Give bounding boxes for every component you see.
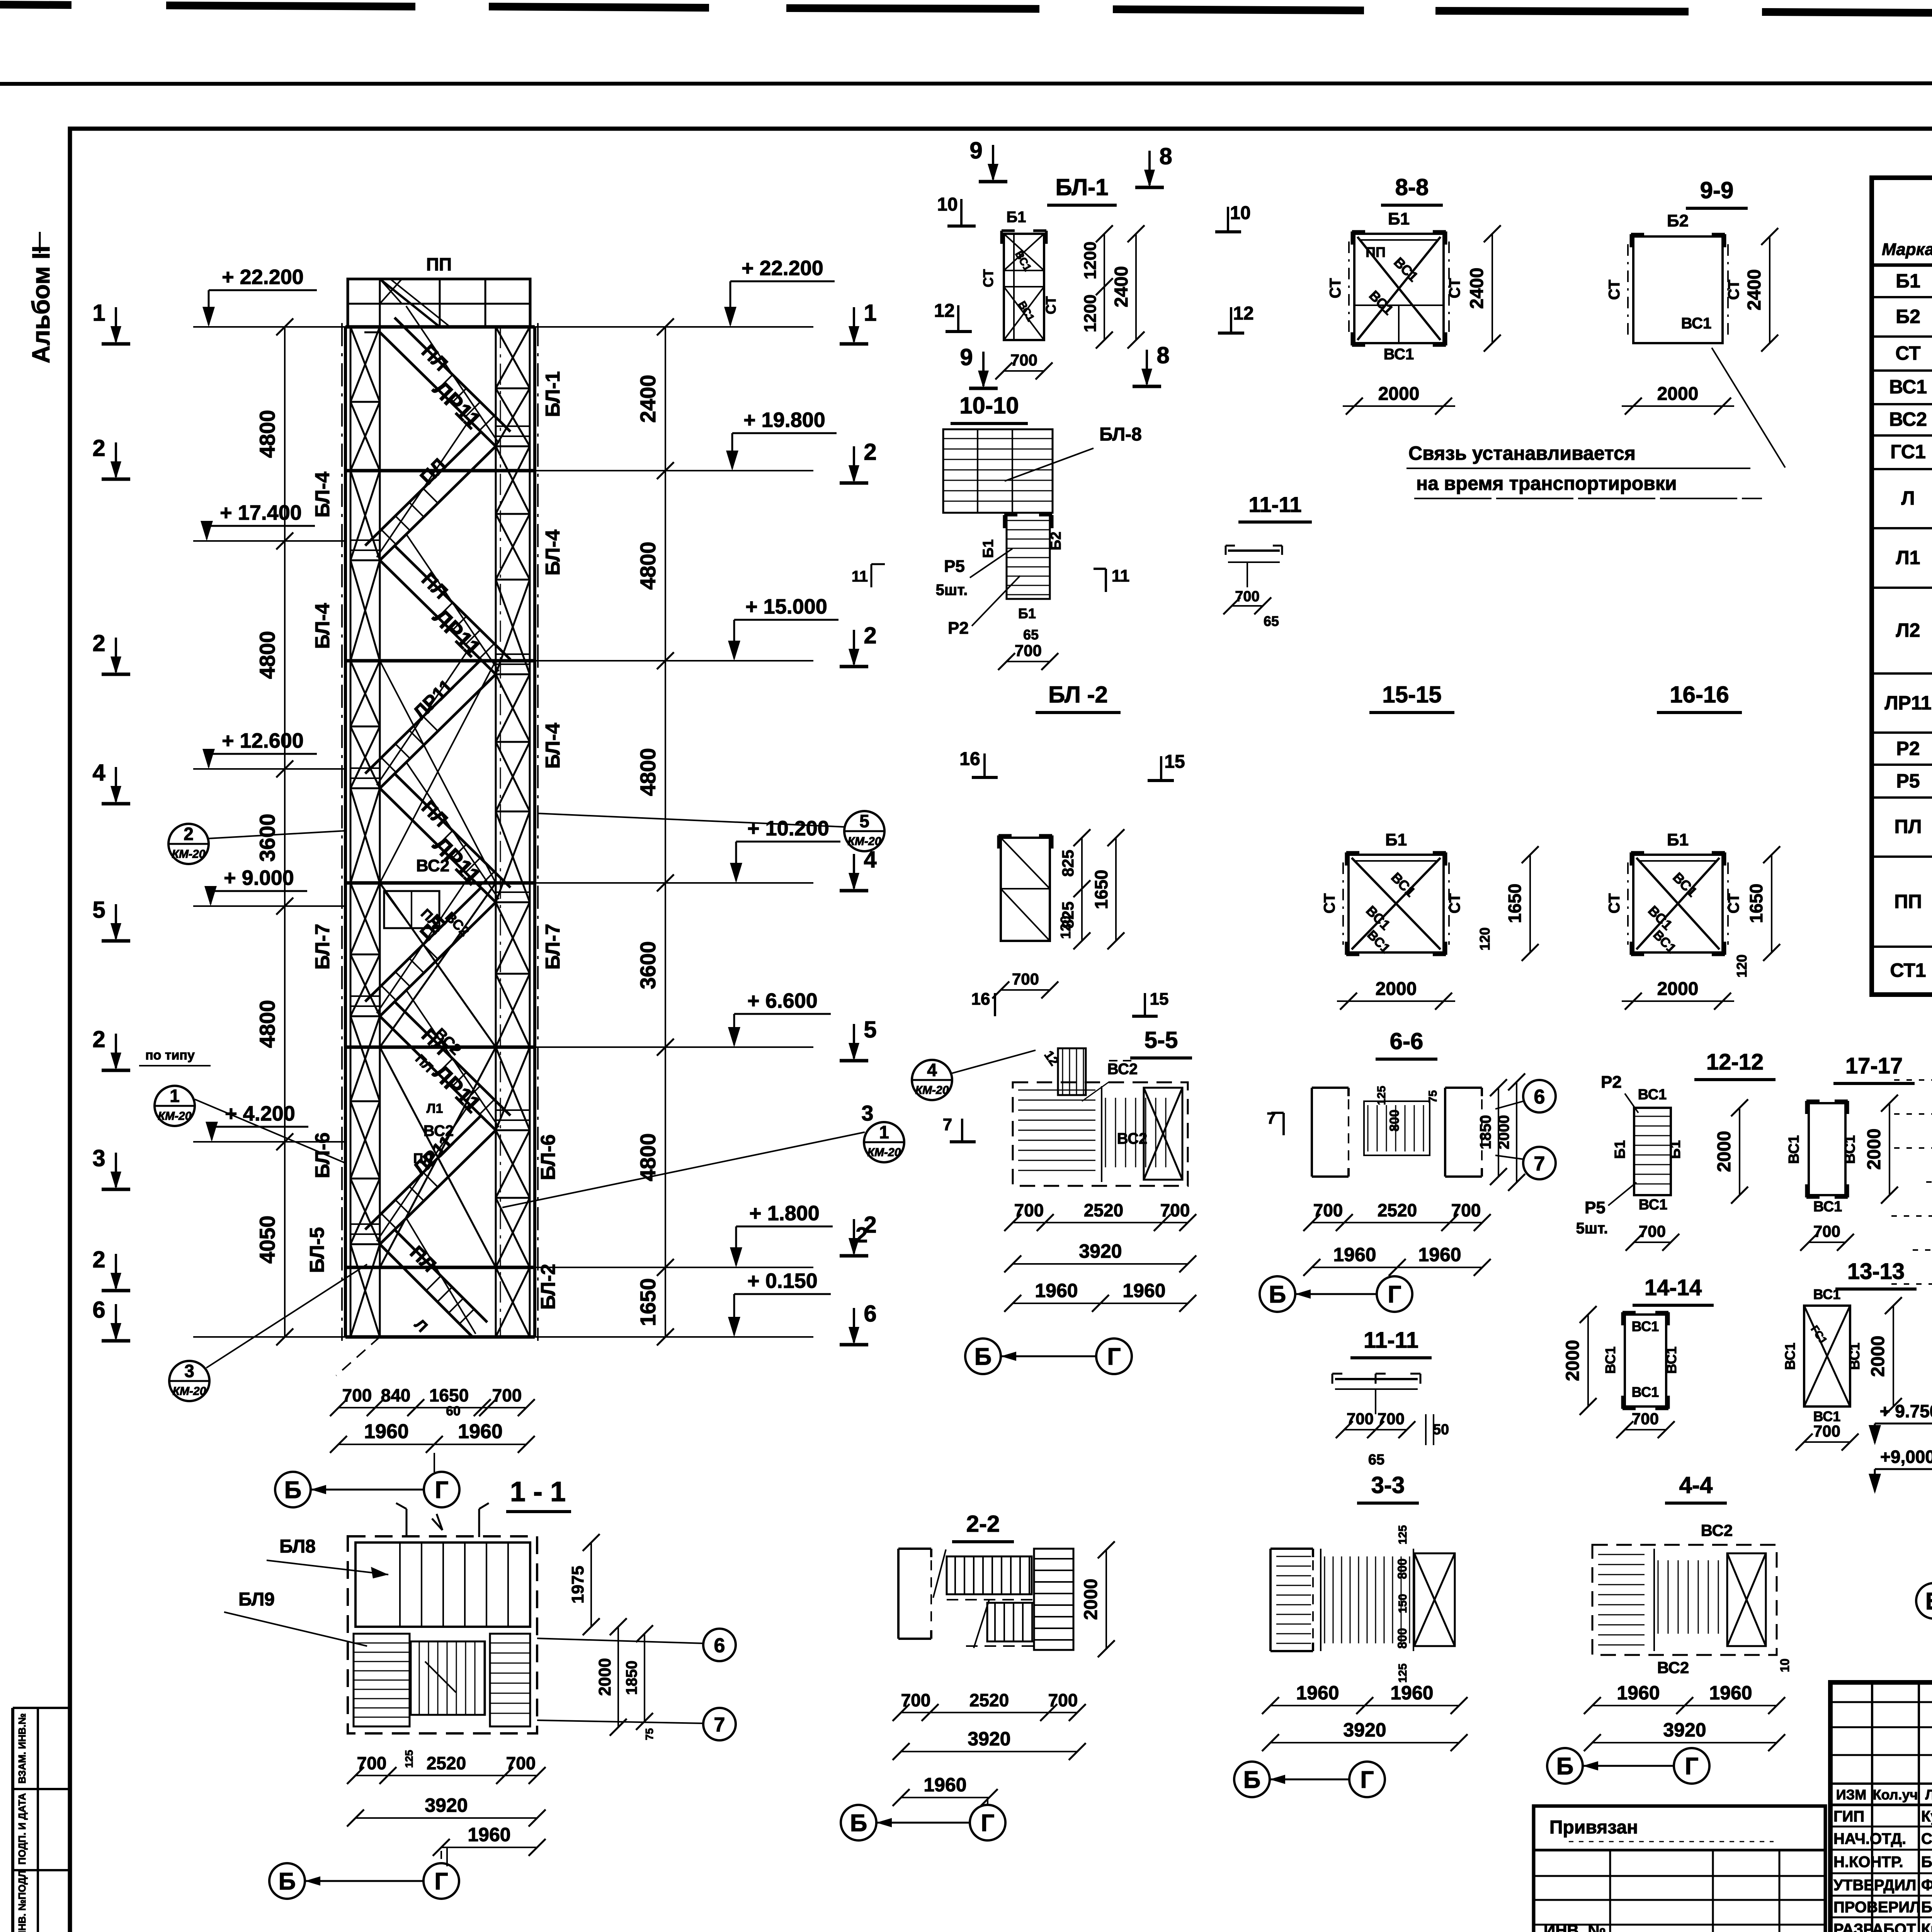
svg-text:15-15: 15-15 [1382, 682, 1441, 707]
svg-text:+ 9.750: + 9.750 [1880, 1401, 1932, 1421]
svg-text:Б2: Б2 [1667, 211, 1689, 230]
svg-text:4800: 4800 [255, 410, 279, 458]
svg-text:2-2: 2-2 [966, 1511, 1000, 1537]
svg-text:6-6: 6-6 [1390, 1028, 1423, 1054]
svg-text:СТ: СТ [1043, 296, 1059, 314]
svg-text:5: 5 [864, 1017, 876, 1043]
svg-text:2520: 2520 [1084, 1200, 1123, 1220]
svg-text:65: 65 [1368, 1452, 1384, 1468]
svg-text:Связь устанавливается: Связь устанавливается [1408, 442, 1636, 464]
svg-text:БЛ-4: БЛ-4 [542, 530, 564, 576]
svg-text:150: 150 [1396, 1594, 1409, 1613]
svg-text:700: 700 [1014, 1200, 1044, 1220]
svg-text:ВС1: ВС1 [1782, 1343, 1798, 1370]
svg-text:11: 11 [1112, 566, 1130, 585]
svg-text:12-12: 12-12 [1706, 1049, 1764, 1075]
svg-text:1 - 1: 1 - 1 [510, 1476, 566, 1507]
svg-text:16-16: 16-16 [1670, 682, 1729, 707]
svg-text:СТ1: СТ1 [1890, 959, 1926, 981]
svg-text:СТ: СТ [1895, 342, 1920, 364]
svg-text:2000: 2000 [1714, 1131, 1735, 1172]
svg-text:ГИП: ГИП [1833, 1808, 1864, 1825]
svg-text:11-11: 11-11 [1248, 492, 1301, 517]
svg-text:125: 125 [403, 1750, 415, 1768]
svg-text:2400: 2400 [1111, 266, 1132, 308]
svg-text:БЛ-6: БЛ-6 [537, 1134, 560, 1180]
svg-text:4800: 4800 [636, 542, 660, 590]
svg-text:Р2: Р2 [1601, 1073, 1622, 1092]
svg-text:2: 2 [92, 1026, 105, 1052]
svg-text:2520: 2520 [969, 1690, 1009, 1710]
svg-text:КМ-20: КМ-20 [867, 1146, 901, 1159]
svg-text:ЛР11: ЛР11 [1884, 692, 1931, 714]
svg-text:СТ: СТ [1606, 280, 1623, 300]
svg-text:ВС1: ВС1 [1889, 376, 1927, 398]
svg-text:Р5: Р5 [1896, 770, 1920, 792]
svg-text:8: 8 [1156, 342, 1169, 368]
svg-text:БЛ-6: БЛ-6 [311, 1133, 334, 1179]
svg-text:700: 700 [1160, 1200, 1190, 1220]
svg-text:Р5: Р5 [944, 557, 965, 576]
svg-text:Г: Г [434, 1868, 448, 1895]
svg-text:2: 2 [92, 630, 105, 656]
svg-text:РАЗРАБОТ: РАЗРАБОТ [1833, 1921, 1916, 1932]
svg-text:5-5: 5-5 [1145, 1027, 1178, 1053]
svg-text:УТВЕРДИЛ: УТВЕРДИЛ [1833, 1877, 1916, 1894]
svg-text:ВС2: ВС2 [416, 856, 449, 875]
svg-text:1650: 1650 [429, 1385, 469, 1405]
svg-text:9: 9 [960, 344, 973, 370]
svg-text:КМ-20: КМ-20 [158, 1110, 192, 1122]
svg-text:БЛ-5: БЛ-5 [306, 1227, 328, 1273]
svg-text:СТ: СТ [1606, 893, 1623, 913]
svg-text:700: 700 [1010, 351, 1037, 369]
svg-text:700: 700 [901, 1690, 931, 1710]
svg-text:ВЗАМ. ИНВ.№: ВЗАМ. ИНВ.№ [16, 1713, 28, 1784]
svg-text:КМ-20: КМ-20 [915, 1084, 949, 1097]
svg-text:СТ: СТ [1725, 280, 1742, 300]
svg-text:700: 700 [1639, 1222, 1666, 1240]
svg-text:ВС1: ВС1 [1384, 346, 1414, 363]
svg-text:700: 700 [1048, 1690, 1078, 1710]
svg-text:2: 2 [184, 824, 194, 844]
svg-text:Б: Б [1269, 1281, 1286, 1308]
svg-text:БЛ-1: БЛ-1 [542, 371, 564, 417]
svg-text:7: 7 [1534, 1153, 1545, 1175]
svg-text:3920: 3920 [1343, 1719, 1386, 1741]
svg-text:Г: Г [1685, 1753, 1698, 1780]
svg-text:3: 3 [184, 1361, 194, 1381]
svg-text:СТ: СТ [1446, 278, 1463, 298]
svg-text:Б1: Б1 [1667, 1140, 1684, 1159]
svg-text:Л: Л [1901, 487, 1915, 509]
svg-text:75: 75 [1427, 1090, 1439, 1103]
svg-text:2000: 2000 [1495, 1115, 1512, 1150]
svg-text:800: 800 [1395, 1558, 1409, 1579]
svg-text:Л1: Л1 [1896, 547, 1920, 568]
svg-text:Б: Б [850, 1810, 867, 1837]
svg-text:ВС2: ВС2 [423, 1122, 454, 1139]
svg-text:1960: 1960 [1709, 1682, 1752, 1704]
svg-text:Г: Г [1107, 1344, 1121, 1370]
svg-text:11: 11 [852, 568, 868, 585]
svg-text:БЛ-2: БЛ-2 [537, 1264, 560, 1310]
svg-text:Б1: Б1 [1667, 830, 1689, 849]
svg-text:ПЛ: ПЛ [1894, 816, 1922, 837]
svg-text:1: 1 [170, 1086, 180, 1106]
svg-text:+ 4.200: + 4.200 [225, 1102, 295, 1125]
svg-text:800: 800 [1387, 1110, 1402, 1132]
svg-text:2000: 2000 [1376, 979, 1417, 999]
svg-text:ВС1: ВС1 [1786, 1135, 1802, 1164]
svg-text:Альбом II: Альбом II [27, 246, 55, 364]
svg-text:5шт.: 5шт. [936, 582, 968, 599]
svg-text:по типу: по типу [145, 1048, 195, 1063]
svg-text:125: 125 [1375, 1086, 1388, 1105]
svg-text:15: 15 [1164, 752, 1185, 772]
svg-text:3920: 3920 [1079, 1240, 1122, 1262]
svg-text:Кол.уч: Кол.уч [1873, 1787, 1918, 1803]
svg-text:+ 17.400: + 17.400 [220, 501, 302, 524]
svg-text:2000: 2000 [1657, 979, 1699, 999]
svg-text:5шт.: 5шт. [1576, 1220, 1608, 1237]
svg-text:Бабурин: Бабурин [1921, 1899, 1932, 1916]
svg-text:Б: Б [284, 1477, 302, 1503]
svg-text:700: 700 [342, 1385, 372, 1405]
svg-text:ВС2: ВС2 [1701, 1521, 1733, 1539]
svg-text:10: 10 [937, 194, 957, 215]
svg-text:700: 700 [1632, 1410, 1659, 1428]
svg-text:1960: 1960 [1418, 1244, 1461, 1265]
svg-text:15: 15 [1150, 990, 1169, 1009]
svg-text:1: 1 [879, 1122, 889, 1142]
svg-text:3600: 3600 [255, 814, 279, 862]
svg-text:Б2: Б2 [1896, 306, 1920, 327]
svg-text:на время транспортировки: на время транспортировки [1416, 473, 1677, 494]
svg-text:2520: 2520 [427, 1753, 466, 1773]
svg-text:Б1: Б1 [1896, 270, 1920, 292]
svg-text:700: 700 [1313, 1200, 1343, 1220]
svg-text:Г: Г [981, 1810, 994, 1837]
svg-text:3: 3 [92, 1145, 105, 1171]
svg-text:1850: 1850 [1477, 1115, 1494, 1150]
svg-text:65: 65 [1264, 613, 1279, 629]
svg-text:ПОДП. И ДАТА: ПОДП. И ДАТА [16, 1793, 28, 1864]
svg-text:Князева: Князева [1921, 1921, 1932, 1932]
svg-text:1960: 1960 [923, 1774, 966, 1796]
svg-text:БЛ-4: БЛ-4 [542, 723, 564, 769]
svg-text:Б1: Б1 [1018, 605, 1036, 621]
svg-text:4800: 4800 [636, 748, 660, 796]
svg-text:4: 4 [92, 760, 105, 786]
svg-text:+ 1.800: + 1.800 [749, 1202, 820, 1225]
svg-text:700: 700 [1235, 588, 1259, 605]
svg-text:1960: 1960 [468, 1824, 510, 1845]
svg-text:ВС1: ВС1 [1632, 1384, 1659, 1400]
svg-text:+ 22.200: + 22.200 [742, 257, 823, 280]
svg-text:4-4: 4-4 [1679, 1472, 1713, 1498]
svg-text:7: 7 [714, 1714, 725, 1736]
svg-text:13-13: 13-13 [1847, 1259, 1905, 1284]
svg-text:120: 120 [1477, 927, 1493, 951]
svg-text:1650: 1650 [1746, 884, 1766, 923]
svg-text:ВС1: ВС1 [1813, 1286, 1841, 1302]
svg-text:Кузнецов: Кузнецов [1921, 1808, 1932, 1825]
svg-text:Б1: Б1 [1612, 1140, 1628, 1159]
svg-text:3: 3 [861, 1101, 873, 1125]
svg-text:125: 125 [1396, 1663, 1409, 1683]
svg-text:2000: 2000 [1868, 1336, 1888, 1377]
svg-text:1: 1 [864, 300, 876, 326]
svg-text:Б: Б [1925, 1588, 1932, 1615]
svg-text:1850: 1850 [623, 1661, 640, 1695]
svg-text:Севостьянов: Севостьянов [1921, 1830, 1932, 1847]
svg-text:12: 12 [934, 301, 954, 321]
svg-text:БЛ-1: БЛ-1 [1055, 174, 1108, 200]
svg-text:2400: 2400 [1467, 268, 1487, 309]
svg-text:СТ: СТ [1321, 893, 1338, 913]
svg-text:ВС1: ВС1 [1632, 1318, 1659, 1334]
svg-text:700: 700 [1012, 970, 1039, 988]
svg-text:6: 6 [1534, 1086, 1545, 1108]
svg-text:Б: Б [975, 1344, 992, 1370]
svg-text:Б: Б [1243, 1767, 1261, 1793]
svg-text:2: 2 [92, 435, 105, 461]
svg-text:6: 6 [864, 1301, 876, 1327]
svg-text:ПЛ: ПЛ [413, 1150, 433, 1166]
svg-text:Н.КОНТР.: Н.КОНТР. [1833, 1854, 1903, 1871]
svg-text:7: 7 [943, 1115, 952, 1134]
svg-text:ИЗМ: ИЗМ [1836, 1787, 1866, 1803]
svg-text:+ 19.800: + 19.800 [743, 408, 825, 432]
svg-text:50: 50 [1433, 1422, 1449, 1438]
svg-text:ПРОВЕРИЛ: ПРОВЕРИЛ [1833, 1899, 1920, 1916]
svg-text:825: 825 [1059, 850, 1077, 877]
svg-text:75: 75 [643, 1728, 655, 1740]
svg-text:+ 15.000: + 15.000 [745, 595, 827, 618]
svg-text:Б1: Б1 [1385, 830, 1407, 849]
svg-text:Б: Б [1556, 1753, 1574, 1780]
svg-text:Б1: Б1 [980, 539, 997, 558]
svg-text:СТ: СТ [1725, 893, 1742, 913]
svg-text:+9,000: +9,000 [1880, 1447, 1932, 1467]
svg-text:БЛ-4: БЛ-4 [311, 472, 334, 518]
svg-text:700: 700 [357, 1753, 387, 1773]
svg-text:1960: 1960 [1390, 1682, 1433, 1704]
svg-text:+ 6.600: + 6.600 [747, 989, 818, 1012]
svg-text:Г: Г [435, 1477, 448, 1503]
svg-text:2000: 2000 [1864, 1129, 1884, 1170]
svg-text:Г: Г [1388, 1281, 1401, 1308]
svg-text:1650: 1650 [636, 1278, 660, 1327]
svg-text:14-14: 14-14 [1645, 1275, 1702, 1300]
svg-text:+ 0.150: + 0.150 [747, 1269, 818, 1293]
svg-text:700: 700 [1813, 1222, 1840, 1240]
svg-text:60: 60 [446, 1404, 461, 1418]
svg-text:700: 700 [492, 1385, 522, 1405]
svg-text:Б1: Б1 [1388, 209, 1410, 228]
svg-text:8: 8 [1159, 143, 1172, 169]
svg-text:10: 10 [1778, 1658, 1792, 1672]
svg-text:9-9: 9-9 [1700, 177, 1734, 203]
svg-text:6: 6 [714, 1634, 725, 1657]
svg-text:700: 700 [506, 1753, 536, 1773]
svg-text:НАЧ.ОТД.: НАЧ.ОТД. [1833, 1830, 1906, 1847]
svg-text:Б2: Б2 [1048, 532, 1064, 550]
svg-text:ВС1: ВС1 [1847, 1343, 1862, 1370]
svg-text:1960: 1960 [364, 1420, 409, 1443]
svg-text:840: 840 [381, 1385, 411, 1405]
svg-text:12: 12 [1233, 303, 1253, 324]
svg-text:ВС2: ВС2 [1889, 408, 1927, 430]
svg-text:2000: 2000 [1563, 1340, 1583, 1381]
svg-text:3920: 3920 [968, 1728, 1010, 1750]
svg-text:ВС1: ВС1 [1681, 315, 1712, 332]
svg-text:КМ-20: КМ-20 [172, 848, 206, 861]
svg-text:1960: 1960 [458, 1420, 503, 1443]
svg-text:Р2: Р2 [948, 619, 969, 638]
svg-text:2000: 2000 [1657, 384, 1699, 404]
svg-text:3920: 3920 [1663, 1719, 1706, 1741]
svg-text:3600: 3600 [636, 941, 660, 990]
svg-text:6: 6 [92, 1297, 105, 1323]
svg-text:+ 10.200: + 10.200 [747, 817, 829, 840]
svg-text:2400: 2400 [636, 375, 660, 423]
svg-text:Л2: Л2 [1896, 619, 1920, 641]
svg-text:Р5: Р5 [1585, 1198, 1605, 1217]
svg-text:2000: 2000 [1081, 1579, 1101, 1620]
svg-text:ПП: ПП [426, 254, 452, 274]
svg-text:БЛ-7: БЛ-7 [542, 924, 564, 970]
svg-text:2: 2 [864, 622, 876, 648]
svg-text:Р2: Р2 [1896, 738, 1920, 759]
svg-text:СТ: СТ [980, 269, 996, 287]
svg-text:16: 16 [971, 990, 990, 1009]
svg-text:ВС1: ВС1 [1842, 1135, 1858, 1164]
svg-text:Б1: Б1 [1007, 209, 1026, 226]
svg-text:ПП: ПП [1894, 891, 1922, 912]
svg-text:Л1: Л1 [427, 1101, 443, 1116]
svg-text:120: 120 [1058, 916, 1073, 939]
svg-text:2000: 2000 [1378, 384, 1420, 404]
svg-text:1960: 1960 [1122, 1280, 1165, 1301]
svg-text:1200: 1200 [1081, 294, 1100, 332]
svg-text:120: 120 [1734, 954, 1750, 978]
svg-text:5: 5 [92, 897, 105, 923]
svg-text:1: 1 [92, 300, 105, 326]
svg-text:1975: 1975 [568, 1566, 587, 1604]
svg-text:2000: 2000 [595, 1658, 614, 1696]
svg-text:БЛ-8: БЛ-8 [1099, 424, 1142, 445]
svg-text:1960: 1960 [1617, 1682, 1660, 1704]
svg-text:3-3: 3-3 [1371, 1472, 1405, 1498]
svg-text:ИНВ. №: ИНВ. № [1544, 1921, 1606, 1932]
svg-text:БЛ9: БЛ9 [238, 1589, 275, 1610]
svg-text:БЛ8: БЛ8 [279, 1536, 316, 1557]
svg-text:1960: 1960 [1296, 1682, 1339, 1704]
svg-text:2520: 2520 [1378, 1200, 1417, 1220]
svg-text:КМ-20: КМ-20 [173, 1385, 206, 1398]
svg-text:4050: 4050 [255, 1216, 279, 1264]
svg-text:+ 9.000: + 9.000 [224, 866, 294, 889]
svg-text:4800: 4800 [255, 1000, 279, 1048]
svg-text:1200: 1200 [1081, 241, 1100, 279]
svg-text:ВС2: ВС2 [1117, 1130, 1148, 1147]
svg-text:4800: 4800 [636, 1133, 660, 1182]
svg-text:2: 2 [92, 1247, 105, 1272]
svg-text:700: 700 [1813, 1422, 1840, 1440]
svg-text:+ 22.200: + 22.200 [222, 265, 304, 289]
svg-text:БЛ-4: БЛ-4 [311, 603, 334, 649]
svg-text:БЛ-7: БЛ-7 [311, 924, 334, 970]
svg-text:2: 2 [864, 439, 876, 465]
svg-text:Б: Б [279, 1868, 296, 1895]
svg-text:8-8: 8-8 [1395, 174, 1429, 200]
svg-text:КМ-20: КМ-20 [848, 835, 881, 848]
svg-text:ВС1: ВС1 [1639, 1197, 1668, 1213]
svg-text:1650: 1650 [1091, 870, 1111, 909]
svg-text:1960: 1960 [1333, 1244, 1376, 1265]
svg-text:10-10: 10-10 [959, 393, 1019, 418]
svg-text:ПП: ПП [1366, 244, 1386, 260]
svg-text:65: 65 [1023, 627, 1039, 643]
svg-text:БЛ -2: БЛ -2 [1048, 682, 1108, 707]
svg-text:ГС1: ГС1 [1890, 441, 1926, 463]
svg-text:ВС1: ВС1 [1638, 1087, 1667, 1103]
svg-text:1650: 1650 [1505, 884, 1525, 923]
svg-text:4800: 4800 [255, 631, 279, 679]
svg-text:9: 9 [969, 138, 982, 163]
svg-text:17-17: 17-17 [1845, 1053, 1903, 1078]
svg-text:125: 125 [1396, 1525, 1409, 1544]
svg-text:Бабурин: Бабурин [1921, 1854, 1932, 1871]
svg-text:ВС1: ВС1 [1813, 1199, 1842, 1215]
svg-text:4: 4 [927, 1060, 937, 1080]
svg-text:3920: 3920 [425, 1794, 468, 1816]
svg-text:700: 700 [1015, 641, 1042, 660]
svg-text:11-11: 11-11 [1364, 1328, 1418, 1353]
svg-text:СТ: СТ [1327, 278, 1344, 298]
svg-text:10: 10 [1230, 203, 1250, 223]
svg-text:ВС2: ВС2 [1657, 1658, 1689, 1677]
svg-text:2400: 2400 [1744, 269, 1765, 311]
svg-text:2: 2 [855, 1223, 867, 1247]
svg-text:Лист: Лист [1925, 1787, 1932, 1803]
svg-text:ВС2: ВС2 [1107, 1061, 1138, 1078]
svg-text:ВС1: ВС1 [1663, 1347, 1679, 1374]
svg-text:СТ: СТ [1446, 893, 1463, 913]
svg-text:Г: Г [1360, 1767, 1374, 1793]
svg-text:800: 800 [1395, 1628, 1409, 1648]
svg-text:700: 700 [1451, 1200, 1481, 1220]
svg-text:Марка: Марка [1882, 240, 1932, 259]
svg-text:Привязан: Привязан [1549, 1817, 1638, 1838]
svg-text:5: 5 [859, 811, 869, 831]
svg-text:ИНВ. №ПОДЛ: ИНВ. №ПОДЛ [16, 1870, 28, 1932]
svg-text:700: 700 [1347, 1410, 1374, 1428]
svg-text:ВС1: ВС1 [1602, 1347, 1618, 1374]
svg-text:1960: 1960 [1035, 1280, 1078, 1301]
svg-text:Федотов: Федотов [1921, 1877, 1932, 1894]
svg-text:700: 700 [1378, 1410, 1405, 1428]
svg-text:+ 12.600: + 12.600 [222, 729, 304, 752]
svg-text:16: 16 [959, 749, 980, 769]
